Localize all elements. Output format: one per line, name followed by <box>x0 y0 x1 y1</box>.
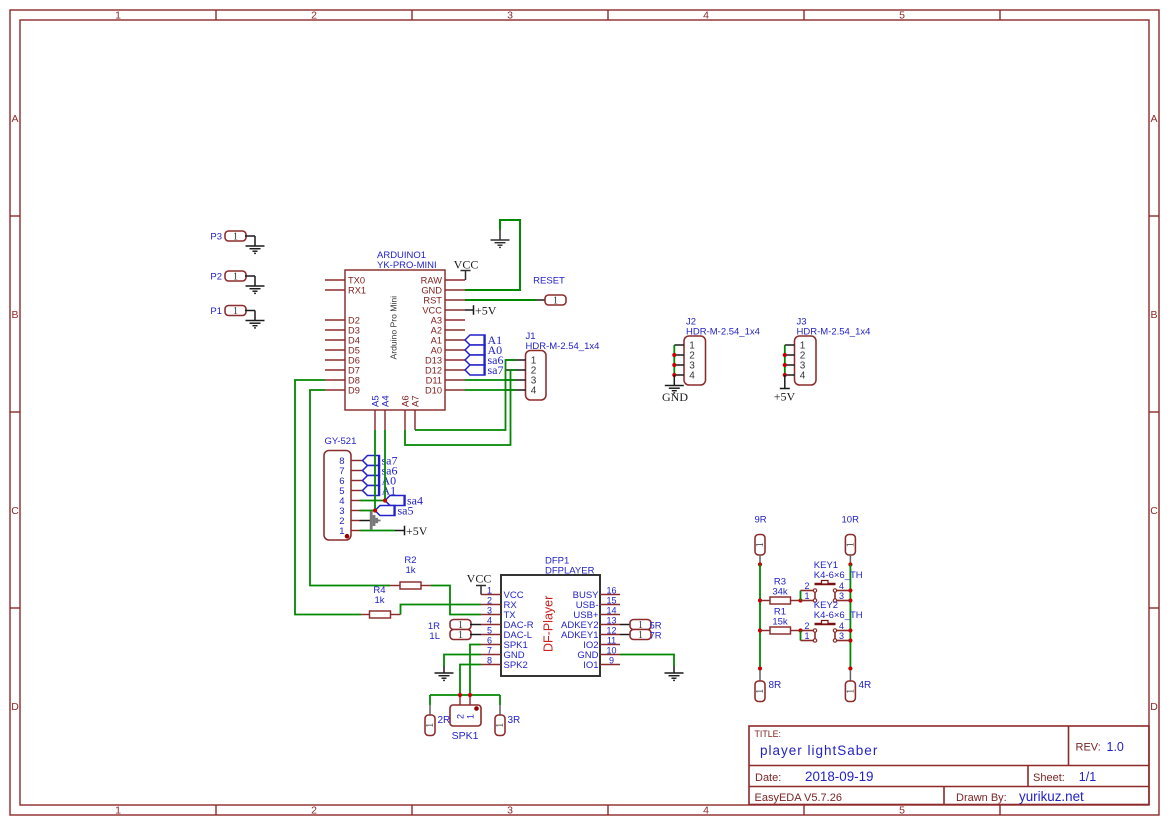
svg-text:DF-Player: DF-Player <box>542 596 556 652</box>
svg-text:GND: GND <box>421 286 442 296</box>
svg-text:2018-09-19: 2018-09-19 <box>805 769 874 784</box>
svg-text:RX1: RX1 <box>348 286 366 296</box>
svg-text:EasyEDA V5.7.26: EasyEDA V5.7.26 <box>755 792 842 804</box>
svg-text:SPK1: SPK1 <box>452 730 479 742</box>
svg-text:sa5: sa5 <box>398 504 414 518</box>
svg-text:SPK2: SPK2 <box>504 660 528 671</box>
svg-text:3: 3 <box>507 805 513 817</box>
svg-text:1k: 1k <box>405 565 415 576</box>
svg-text:7: 7 <box>487 646 492 656</box>
svg-text:1: 1 <box>458 630 463 641</box>
svg-text:5: 5 <box>899 805 905 817</box>
svg-text:1k: 1k <box>374 595 384 606</box>
svg-text:D: D <box>1150 701 1158 713</box>
svg-text:A4: A4 <box>381 395 392 407</box>
svg-text:GY-521: GY-521 <box>325 436 357 447</box>
svg-text:yurikuz.net: yurikuz.net <box>1019 789 1084 804</box>
svg-text:8: 8 <box>487 656 492 666</box>
svg-text:D8: D8 <box>348 376 360 386</box>
svg-text:1: 1 <box>846 542 857 547</box>
svg-text:D13: D13 <box>425 356 442 366</box>
svg-text:4: 4 <box>839 581 844 591</box>
svg-text:B: B <box>11 309 18 321</box>
svg-text:2: 2 <box>456 714 466 719</box>
svg-text:D6: D6 <box>348 356 360 366</box>
svg-text:A7: A7 <box>411 395 422 407</box>
svg-text:Arduino Pro Mini: Arduino Pro Mini <box>389 296 399 360</box>
svg-text:D: D <box>11 701 19 713</box>
svg-text:1: 1 <box>804 591 809 601</box>
svg-text:A3: A3 <box>431 316 442 326</box>
svg-text:A1: A1 <box>431 336 442 346</box>
svg-text:1: 1 <box>846 689 857 694</box>
svg-text:1: 1 <box>115 10 121 22</box>
svg-text:1: 1 <box>804 631 809 641</box>
svg-text:8R: 8R <box>769 680 782 691</box>
svg-text:3: 3 <box>507 10 513 22</box>
svg-text:K4-6×6_TH: K4-6×6_TH <box>814 570 863 581</box>
svg-text:VCC: VCC <box>454 258 479 272</box>
svg-text:3: 3 <box>839 591 844 601</box>
svg-text:9: 9 <box>609 656 614 666</box>
svg-text:B: B <box>1150 309 1157 321</box>
svg-text:4: 4 <box>839 621 844 631</box>
svg-text:player lightSaber: player lightSaber <box>760 743 878 758</box>
svg-text:1: 1 <box>233 272 238 283</box>
svg-text:1: 1 <box>466 714 476 719</box>
svg-text:1L: 1L <box>429 631 440 642</box>
svg-text:2: 2 <box>311 10 317 22</box>
svg-text:3: 3 <box>487 606 492 616</box>
svg-text:10: 10 <box>606 646 616 656</box>
svg-text:13: 13 <box>606 616 616 626</box>
svg-text:C: C <box>1150 505 1158 517</box>
svg-text:10R: 10R <box>842 515 860 526</box>
svg-text:4: 4 <box>800 371 806 382</box>
svg-text:P2: P2 <box>210 272 222 283</box>
svg-text:A: A <box>1150 113 1157 125</box>
svg-text:2: 2 <box>804 621 809 631</box>
svg-text:+5V: +5V <box>475 303 497 317</box>
svg-text:15k: 15k <box>772 617 788 628</box>
svg-text:4R: 4R <box>859 680 872 691</box>
svg-text:1: 1 <box>233 232 238 243</box>
svg-text:A: A <box>11 113 18 125</box>
svg-text:+5V: +5V <box>406 524 428 538</box>
svg-text:1: 1 <box>233 306 238 317</box>
svg-text:4: 4 <box>531 386 537 397</box>
svg-text:12: 12 <box>606 626 616 636</box>
svg-text:1: 1 <box>755 542 766 547</box>
svg-text:D3: D3 <box>348 326 360 336</box>
svg-text:1: 1 <box>339 526 344 537</box>
svg-text:4: 4 <box>689 371 695 382</box>
svg-text:Sheet:: Sheet: <box>1033 772 1065 784</box>
svg-text:3: 3 <box>839 631 844 641</box>
svg-text:C: C <box>11 505 19 517</box>
svg-text:K4-6×6_TH: K4-6×6_TH <box>814 610 863 621</box>
svg-text:1: 1 <box>115 805 121 817</box>
svg-text:REV:: REV: <box>1076 742 1101 754</box>
svg-text:D10: D10 <box>425 386 442 396</box>
svg-text:1: 1 <box>755 689 766 694</box>
svg-text:1: 1 <box>487 586 492 596</box>
svg-text:1: 1 <box>495 723 506 728</box>
svg-text:1: 1 <box>425 723 436 728</box>
svg-text:D12: D12 <box>425 366 442 376</box>
svg-text:Drawn By:: Drawn By: <box>956 792 1007 804</box>
svg-text:4: 4 <box>487 616 492 626</box>
svg-text:RAW: RAW <box>421 276 443 286</box>
svg-text:34k: 34k <box>772 587 788 598</box>
svg-text:9R: 9R <box>755 515 767 526</box>
svg-text:D9: D9 <box>348 386 360 396</box>
svg-text:1: 1 <box>553 296 558 307</box>
svg-text:GND: GND <box>662 390 688 404</box>
svg-text:3R: 3R <box>508 715 521 726</box>
svg-text:1: 1 <box>638 630 643 641</box>
svg-text:1/1: 1/1 <box>1079 770 1096 784</box>
svg-text:7R: 7R <box>650 630 662 641</box>
svg-text:D5: D5 <box>348 346 360 356</box>
svg-text:P1: P1 <box>210 306 222 317</box>
svg-text:5: 5 <box>899 10 905 22</box>
svg-text:11: 11 <box>607 636 616 646</box>
svg-text:4: 4 <box>703 10 709 22</box>
svg-text:4: 4 <box>703 805 709 817</box>
svg-text:D11: D11 <box>426 376 442 386</box>
svg-text:+5V: +5V <box>774 390 796 404</box>
svg-text:1.0: 1.0 <box>1107 740 1124 754</box>
svg-text:IO1: IO1 <box>583 660 598 671</box>
svg-text:2: 2 <box>311 805 317 817</box>
svg-text:2: 2 <box>487 596 492 606</box>
svg-text:14: 14 <box>606 606 616 616</box>
svg-text:2R: 2R <box>438 715 451 726</box>
svg-text:VCC: VCC <box>422 306 442 316</box>
svg-text:6: 6 <box>487 636 492 646</box>
svg-text:15: 15 <box>606 596 616 606</box>
svg-text:A0: A0 <box>431 346 442 356</box>
svg-text:Date:: Date: <box>755 772 781 784</box>
svg-text:TITLE:: TITLE: <box>755 729 781 739</box>
svg-text:A2: A2 <box>431 326 442 336</box>
svg-text:VCC: VCC <box>467 572 492 586</box>
svg-text:RST: RST <box>423 296 442 306</box>
svg-text:D7: D7 <box>348 366 360 376</box>
svg-text:P3: P3 <box>210 232 222 243</box>
svg-text:16: 16 <box>606 586 616 596</box>
svg-text:D4: D4 <box>348 336 360 346</box>
svg-text:RESET: RESET <box>533 276 565 287</box>
svg-text:2: 2 <box>804 581 809 591</box>
svg-text:TX0: TX0 <box>348 276 365 286</box>
svg-text:D2: D2 <box>348 316 360 326</box>
svg-text:5: 5 <box>487 626 492 636</box>
svg-text:sa7: sa7 <box>488 363 504 377</box>
